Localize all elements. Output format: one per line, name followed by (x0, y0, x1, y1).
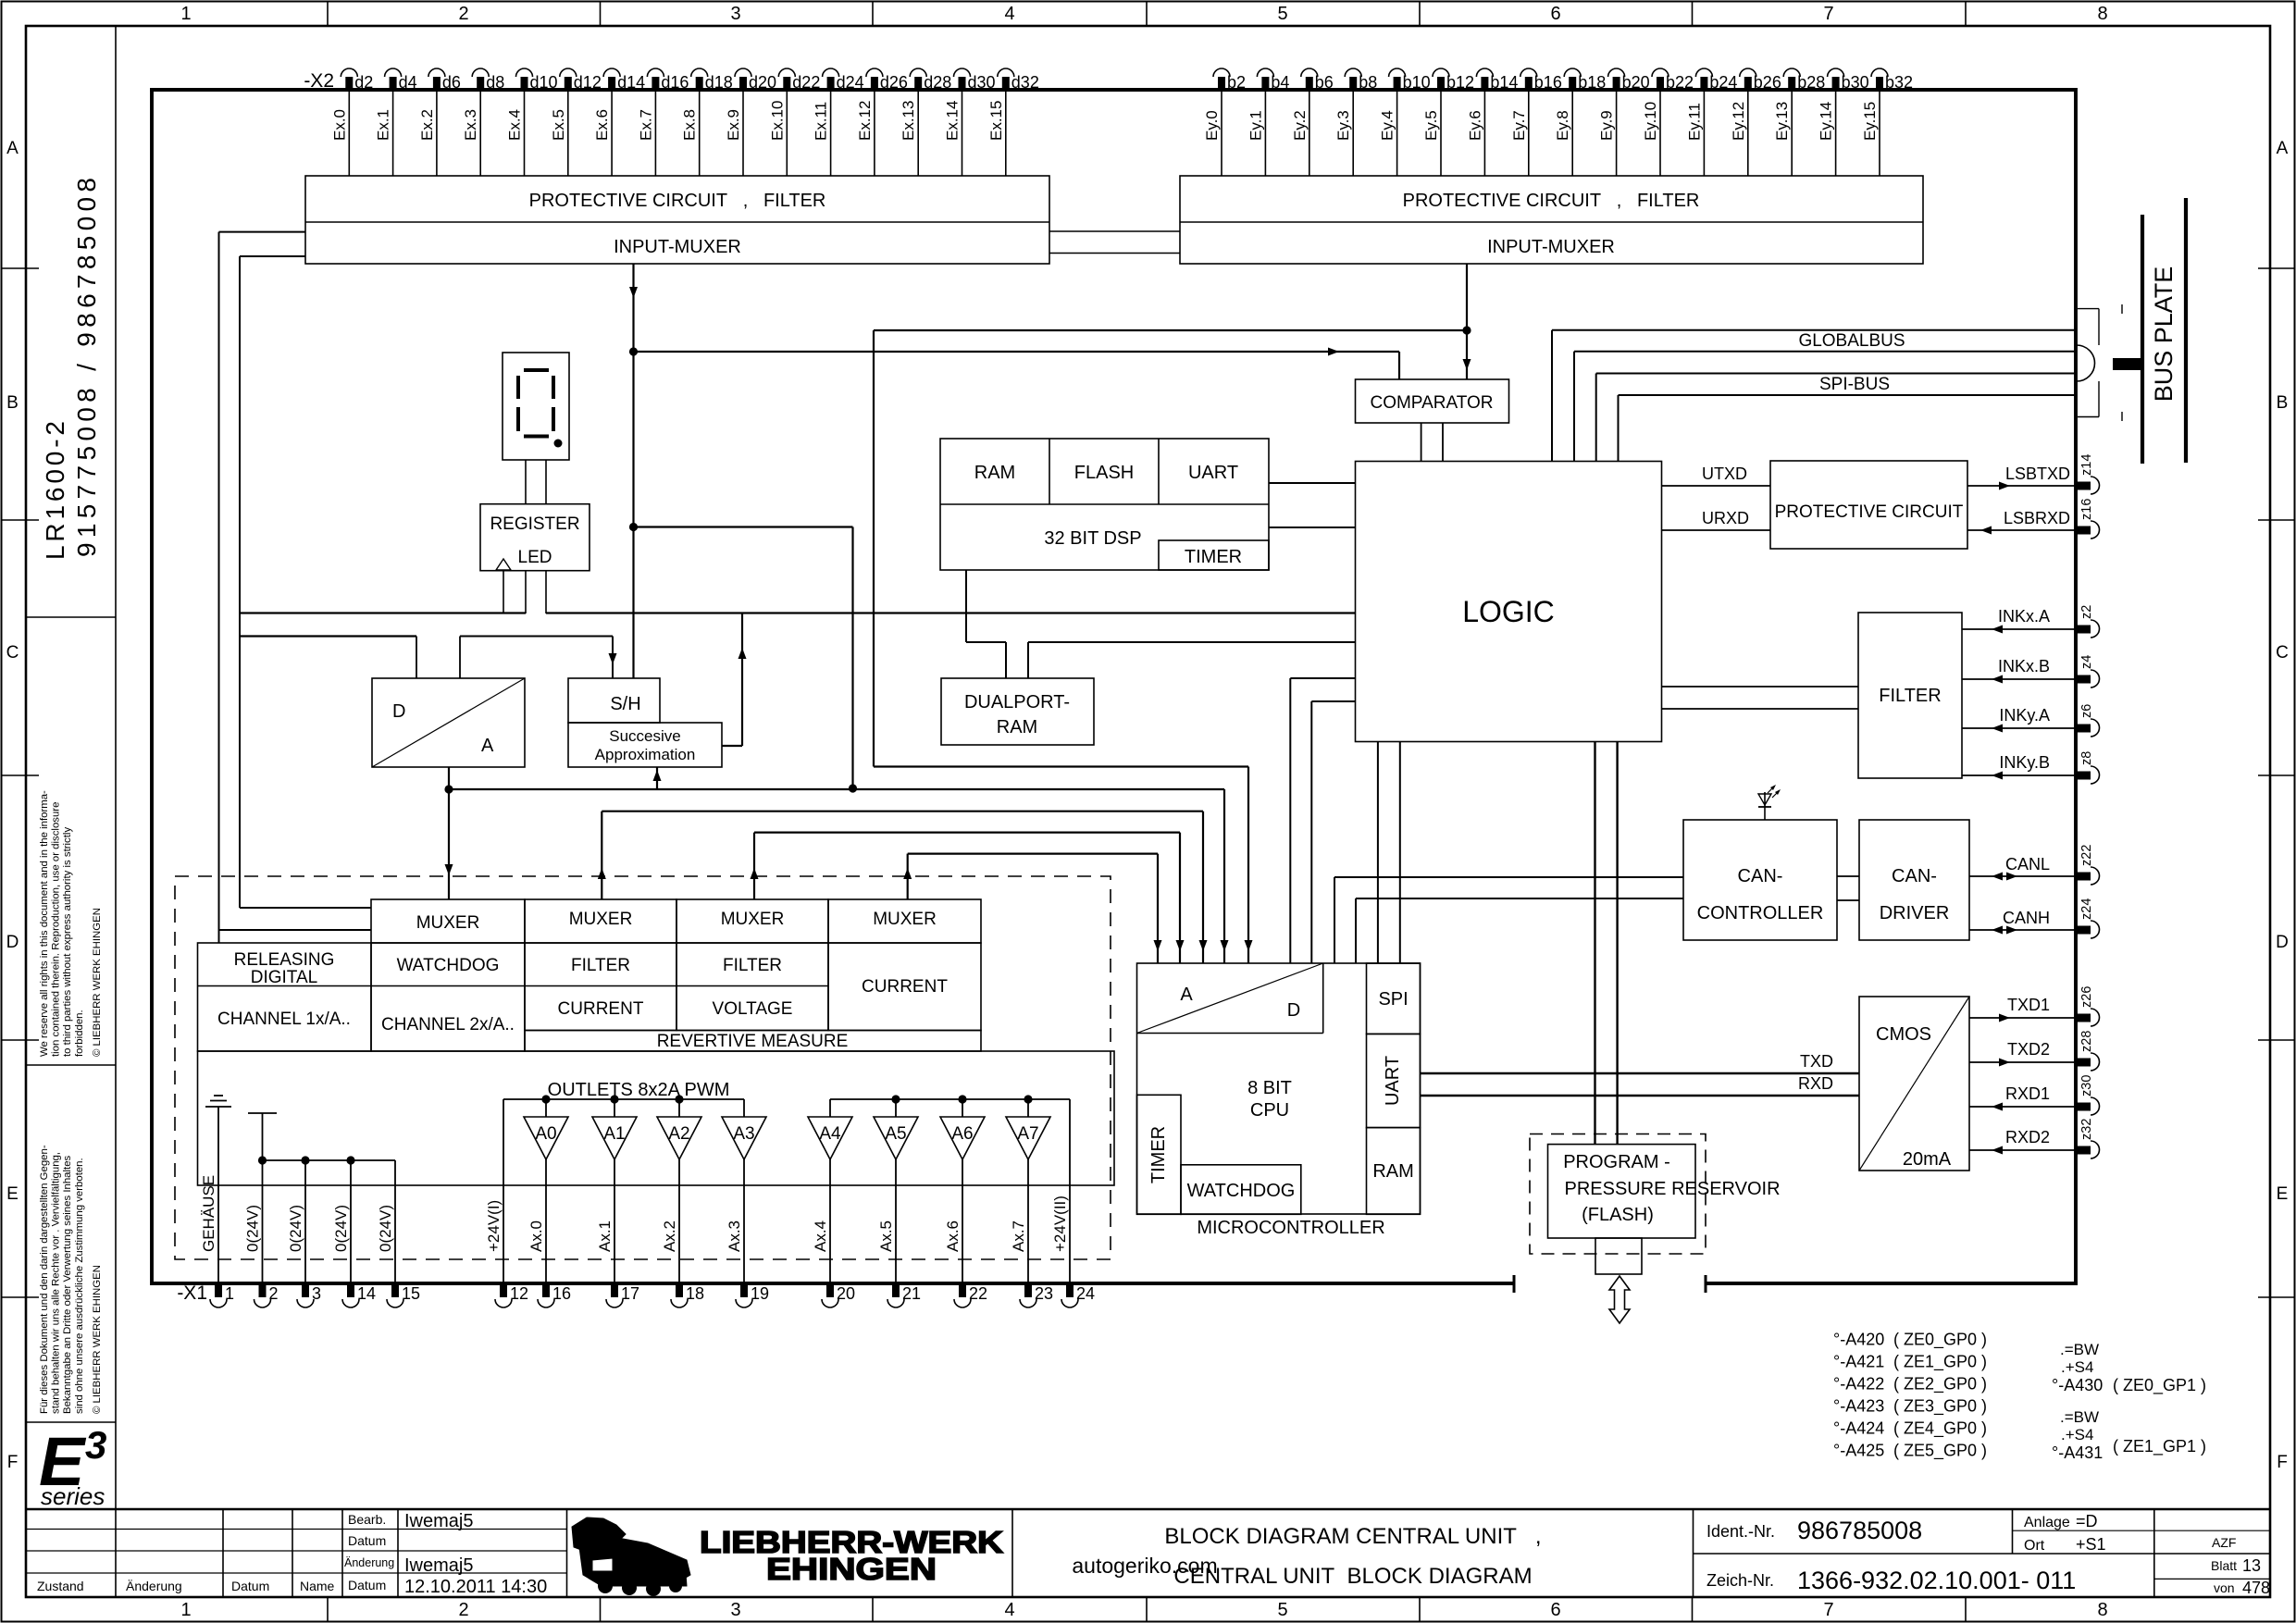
svg-text:( ZE0_GP1 ): ( ZE0_GP1 ) (2113, 1376, 2206, 1395)
central unit outline right rail (2074, 88, 2078, 1285)
wire Ey.11 from pin b24 to protective circuit (1685, 90, 1704, 176)
svg-text:LOGIC: LOGIC (1462, 595, 1555, 628)
svg-text:A1: A1 (603, 1124, 625, 1144)
wires logic to filter (1662, 687, 1859, 709)
svg-text:CANL: CANL (2005, 855, 2050, 873)
wire INKy.A with pin z6 (1962, 704, 2100, 737)
svg-text:RXD2: RXD2 (2005, 1128, 2050, 1146)
svg-text:°-A421: °-A421 (1833, 1353, 1884, 1371)
dashed box program reservoir (1530, 1134, 1706, 1255)
svg-text:series: series (41, 1482, 105, 1510)
svg-text:Änderung: Änderung (344, 1556, 394, 1569)
svg-text:d8: d8 (486, 73, 504, 92)
svg-text:TXD1: TXD1 (2007, 996, 2050, 1014)
svg-text:D: D (6, 933, 19, 952)
connector -X1 bus left segment (152, 1275, 1514, 1293)
title block grid (26, 1509, 2270, 1597)
wire dsp uart to logic (1269, 482, 1356, 484)
svg-text:OUTLETS 8x2A PWM: OUTLETS 8x2A PWM (548, 1080, 730, 1100)
svg-text:-X2: -X2 (304, 70, 334, 92)
svg-text:b2: b2 (1227, 73, 1246, 92)
pin 16 of -X1 (538, 1283, 571, 1307)
pin b28 of -X2 (1783, 68, 1825, 92)
wire lsbtxd with pin z14 (1967, 454, 2100, 494)
svg-text:+24V(I): +24V(I) (485, 1200, 503, 1252)
svg-text:Ey.6: Ey.6 (1466, 110, 1483, 141)
ident number (1706, 1517, 1922, 1544)
svg-text:Iwemaj5: Iwemaj5 (404, 1511, 473, 1531)
svg-text:RELEASING: RELEASING (234, 950, 335, 970)
svg-text:TXD: TXD (1800, 1052, 1833, 1071)
svg-text:A: A (2277, 139, 2289, 158)
svg-text:19: 19 (751, 1284, 769, 1303)
svg-text:20mA: 20mA (1903, 1149, 1952, 1170)
svg-text:PROTECTIVE CIRCUIT: PROTECTIVE CIRCUIT (1775, 502, 1964, 522)
svg-text:A7: A7 (1017, 1124, 1038, 1144)
pin d28 of -X2 (910, 68, 951, 92)
svg-text:3: 3 (85, 1423, 106, 1467)
svg-text:z32: z32 (2079, 1119, 2094, 1140)
wire Ey.5 from pin b12 to protective circuit (1422, 90, 1441, 176)
bus plate connector symbol (2077, 304, 2142, 421)
svg-text:( ZE5_GP0 ): ( ZE5_GP0 ) (1893, 1442, 1987, 1461)
svg-text:Ex.5: Ex.5 (550, 109, 567, 141)
svg-text:b24: b24 (1709, 73, 1737, 92)
svg-text:b22: b22 (1666, 73, 1694, 92)
svg-text:Ex.8: Ex.8 (681, 109, 699, 141)
svg-text:z26: z26 (2079, 986, 2094, 1008)
svg-text:(FLASH): (FLASH) (1582, 1205, 1654, 1225)
svg-text:°-A420: °-A420 (1833, 1331, 1884, 1349)
sidebar legal text german (39, 1145, 103, 1414)
svg-text:2: 2 (269, 1284, 279, 1303)
svg-text:von: von (2214, 1580, 2235, 1595)
svg-text:forbidden.: forbidden. (74, 1010, 85, 1057)
pin b12 of -X2 (1433, 68, 1474, 92)
wire Ey.15 from pin b32 to protective circuit (1861, 90, 1880, 176)
block filter (1858, 613, 1962, 778)
wire register output to logic (546, 612, 1356, 613)
svg-text:Anlage: Anlage (2024, 1515, 2070, 1530)
svg-text:VOLTAGE: VOLTAGE (713, 999, 793, 1019)
svg-text:Ex.0: Ex.0 (330, 109, 348, 141)
wire Ex.4 from pin d10 to protective circuit (506, 90, 525, 176)
svg-text:E: E (6, 1184, 19, 1204)
wire right input-muxer to comparator (1463, 264, 1471, 379)
svg-text:Ident.-Nr.: Ident.-Nr. (1706, 1522, 1775, 1541)
wire Ey.13 from pin b28 to protective circuit (1773, 90, 1792, 176)
svg-text:Ex.12: Ex.12 (856, 101, 874, 141)
svg-text:°-A422: °-A422 (1833, 1375, 1884, 1394)
svg-text:Ax.4: Ax.4 (812, 1220, 829, 1252)
double arrow symbol (1609, 1276, 1630, 1323)
wire dsp to dualport ram (966, 570, 1006, 678)
wires to d/a converter top (416, 637, 460, 679)
wire INKy.B with pin z8 (1962, 751, 2100, 784)
column ruler ticks top (328, 2, 1966, 26)
svg-text:Ex.3: Ex.3 (462, 109, 479, 141)
block comparator (1356, 379, 1509, 423)
svg-text:3: 3 (312, 1284, 321, 1303)
svg-text:b32: b32 (1885, 73, 1913, 92)
wire Ex.9 from pin d20 to protective circuit (725, 90, 743, 176)
pin d30 of -X2 (954, 68, 996, 92)
pin 15 of -X1 (387, 1283, 420, 1307)
svg-text:Ey.12: Ey.12 (1730, 102, 1747, 141)
svg-text:°-A425: °-A425 (1833, 1442, 1884, 1460)
svg-text:COMPARATOR: COMPARATOR (1370, 393, 1493, 413)
wire d/a line to sample hold (460, 637, 617, 679)
svg-text:S/H: S/H (610, 694, 640, 714)
svg-text:INKx.B: INKx.B (1998, 657, 2050, 675)
wire +24v(II) rail (830, 1099, 1070, 1283)
pin 24 of -X1 (1061, 1283, 1095, 1307)
block d/a converter (372, 678, 525, 767)
wire Ex.11 from pin d24 to protective circuit (813, 90, 831, 176)
svg-text:INPUT-MUXER: INPUT-MUXER (614, 237, 741, 257)
amplifier A0 (524, 1099, 568, 1283)
pin b4 of -X2 (1257, 68, 1289, 92)
svg-text:z24: z24 (2079, 898, 2094, 920)
svg-text:AZF: AZF (2212, 1535, 2236, 1550)
svg-text:D: D (2276, 933, 2289, 952)
svg-text:TIMER: TIMER (1148, 1126, 1169, 1183)
svg-text:LR1600-2: LR1600-2 (41, 421, 69, 560)
wires register to bus (503, 571, 546, 613)
svg-text:8: 8 (2097, 4, 2107, 24)
svg-text:CANH: CANH (2003, 909, 2050, 927)
wire Ey.7 from pin b16 to protective circuit (1510, 90, 1529, 176)
svg-text:Approximation: Approximation (595, 746, 696, 763)
svg-text:We reserve all rights in this: We reserve all rights in this document a… (39, 790, 50, 1057)
anlage ort fields (2024, 1512, 2106, 1554)
wire urxd logic to protective circuit (1662, 509, 1771, 530)
device reference A431 (2052, 1408, 2206, 1462)
block watchdog channel 2x (371, 943, 525, 1051)
svg-text:MUXER: MUXER (569, 910, 633, 929)
block filter current column (525, 943, 676, 1031)
pin d12 of -X2 (560, 68, 602, 92)
block current column4 (828, 943, 981, 1031)
svg-text:Bearb.: Bearb. (348, 1512, 386, 1527)
svg-text:© LIEBHERR WERK EHINGEN: © LIEBHERR WERK EHINGEN (92, 908, 103, 1057)
svg-text:D: D (1287, 1000, 1300, 1021)
svg-text:16: 16 (552, 1284, 571, 1303)
svg-text:b8: b8 (1359, 73, 1377, 92)
wire link between input-muxer blocks (1049, 231, 1180, 254)
pin b32 of -X2 (1871, 68, 1913, 92)
wire Ex.3 from pin d8 to protective circuit (462, 90, 480, 176)
block can-driver (1859, 820, 1969, 940)
block protective circuit / input-muxer right (1180, 176, 1923, 264)
wire Ey.14 from pin b30 to protective circuit (1818, 90, 1836, 176)
pin b22 of -X2 (1652, 68, 1694, 92)
svg-text:b10: b10 (1403, 73, 1431, 92)
bus globalbus (1552, 330, 2076, 462)
svg-text:z2: z2 (2079, 605, 2094, 619)
svg-text:Ex.6: Ex.6 (593, 109, 611, 141)
svg-text:0(24V): 0(24V) (244, 1205, 262, 1252)
wires seven segment to register (526, 460, 546, 504)
pin b18 of -X2 (1564, 68, 1606, 92)
svg-text:MICROCONTROLLER: MICROCONTROLLER (1197, 1218, 1384, 1238)
svg-text:CAN-: CAN- (1738, 866, 1783, 886)
column numbers bottom (180, 1600, 2107, 1620)
svg-text:A4: A4 (819, 1124, 841, 1144)
wire RXD2 with pin z32 (1969, 1119, 2100, 1158)
svg-text:Zeich-Nr.: Zeich-Nr. (1706, 1571, 1774, 1590)
wire input-muxer feedback to register input (240, 612, 526, 613)
node junction register branch on adc line (849, 784, 857, 792)
block muxer2 (525, 899, 676, 943)
pin d22 of -X2 (778, 68, 820, 92)
block muxer3 (676, 899, 828, 943)
svg-text:Änderung: Änderung (126, 1579, 182, 1593)
svg-text:Ey.11: Ey.11 (1685, 103, 1703, 141)
svg-text:Ey.15: Ey.15 (1861, 102, 1879, 141)
central unit outline left edge (150, 88, 154, 1285)
liebherr-werk ehingen wordmark (700, 1525, 1003, 1586)
svg-text:17: 17 (621, 1284, 639, 1303)
pin b30 of -X2 (1828, 68, 1869, 92)
svg-text:Ey.9: Ey.9 (1598, 110, 1616, 141)
block filter voltage column (676, 943, 828, 1031)
svg-text:4: 4 (1004, 4, 1014, 24)
svg-text:Succesive: Succesive (609, 727, 680, 745)
wire comparator feed to muxer adc channel (874, 330, 1467, 963)
wire TXD1 with pin z26 (1969, 986, 2100, 1026)
svg-text:Ex.14: Ex.14 (944, 101, 962, 141)
svg-text:z30: z30 (2079, 1075, 2094, 1096)
svg-text:PRESSURE RESERVOIR: PRESSURE RESERVOIR (1564, 1179, 1780, 1199)
svg-text:Ax.0: Ax.0 (527, 1220, 545, 1252)
svg-text:Ex.4: Ex.4 (506, 109, 524, 141)
wire Ex.14 from pin d30 to protective circuit (944, 90, 962, 176)
pin d10 of -X2 (516, 68, 558, 92)
pin d4 of -X2 (385, 68, 417, 92)
block protective circuit / input-muxer left (305, 176, 1049, 264)
svg-text:DRIVER: DRIVER (1880, 903, 1950, 923)
pin d14 of -X2 (603, 68, 645, 92)
wire canh with pin z24 (1969, 898, 2100, 938)
svg-text:6: 6 (1550, 4, 1560, 24)
svg-text:( ZE1_GP1 ): ( ZE1_GP1 ) (2113, 1437, 2206, 1456)
svg-text:b18: b18 (1578, 73, 1606, 92)
svg-text:Ort: Ort (2024, 1538, 2045, 1554)
pin d26 of -X2 (866, 68, 908, 92)
svg-text:z4: z4 (2079, 655, 2094, 669)
svg-text:Ey.7: Ey.7 (1510, 110, 1528, 141)
bus plate bars (2142, 198, 2186, 464)
wire logic to microcontroller d1 (1290, 678, 1355, 963)
wire Ex.8 from pin d18 to protective circuit (681, 90, 700, 176)
block revertive measure (525, 1031, 981, 1052)
wire Ey.2 from pin b6 to protective circuit (1291, 90, 1309, 176)
svg-text:d12: d12 (574, 73, 602, 92)
svg-text:0(24V): 0(24V) (287, 1205, 304, 1252)
pin 19 of -X1 (736, 1283, 769, 1307)
block can-controller (1683, 820, 1837, 940)
wires can-controller to can-driver (1837, 876, 1859, 900)
svg-text:+24V(II): +24V(II) (1051, 1196, 1069, 1252)
svg-text:2: 2 (458, 1600, 468, 1620)
svg-text:A3: A3 (733, 1124, 754, 1144)
wire Ex.15 from pin d32 to protective circuit (987, 90, 1006, 176)
wire Ex.2 from pin d6 to protective circuit (418, 90, 437, 176)
E3 series logo (39, 1423, 106, 1510)
svg-text:A0: A0 (535, 1124, 556, 1144)
svg-text:°-A423: °-A423 (1833, 1397, 1884, 1416)
pin d2 of -X2 (341, 68, 373, 92)
svg-text:DUALPORT-: DUALPORT- (964, 692, 1070, 712)
svg-text:CHANNEL 2x/A..: CHANNEL 2x/A.. (381, 1015, 515, 1035)
pin 20 of -X1 (822, 1283, 855, 1307)
svg-text:d16: d16 (661, 73, 689, 92)
svg-text:2: 2 (458, 4, 468, 24)
title block field labels (37, 1512, 394, 1593)
row letters right (2276, 139, 2289, 1472)
wire gehaeuse to pin 1 (217, 1107, 219, 1283)
svg-text:WATCHDOG: WATCHDOG (397, 956, 500, 975)
title block values (404, 1511, 547, 1597)
block sample hold s/h (568, 678, 660, 723)
svg-text:1366-932.02.10.001- 011: 1366-932.02.10.001- 011 (1797, 1567, 2076, 1594)
block succesive approximation (568, 723, 722, 767)
svg-text:( ZE1_GP0 ): ( ZE1_GP0 ) (1893, 1353, 1987, 1372)
block program pressure reservoir flash (1548, 1145, 1781, 1238)
svg-text:Ey.0: Ey.0 (1203, 110, 1221, 141)
svg-text:Datum: Datum (231, 1579, 269, 1593)
svg-text:© LIEBHERR WERK EHINGEN: © LIEBHERR WERK EHINGEN (92, 1265, 103, 1414)
wire spi to can-controller upper (1334, 877, 1683, 963)
pin b24 of -X2 (1695, 68, 1737, 92)
svg-text:PROTECTIVE CIRCUIT , FILTE: PROTECTIVE CIRCUIT , FILTER (529, 191, 826, 211)
svg-text:MUXER: MUXER (873, 910, 937, 929)
node junctions +24v(I) rail (541, 1095, 683, 1103)
wire to comparator left input (634, 348, 1400, 380)
device reference list A420-A425 (1833, 1331, 1987, 1461)
svg-text:C: C (2276, 643, 2289, 663)
svg-text:d32: d32 (1011, 73, 1039, 92)
led diode on can-controller (1758, 785, 1781, 820)
svg-text:A: A (1180, 985, 1193, 1005)
svg-text:Ex.1: Ex.1 (375, 109, 392, 141)
svg-text:d26: d26 (880, 73, 908, 92)
svg-text:Ax.1: Ax.1 (596, 1220, 614, 1252)
amplifier A5 (874, 1099, 918, 1283)
svg-text:to third parties without expre: to third parties without express authori… (62, 827, 73, 1057)
pin 1 of -X1 (210, 1283, 234, 1307)
svg-text:°-A430: °-A430 (2052, 1376, 2103, 1394)
pin b14 of -X2 (1476, 68, 1518, 92)
svg-text:1: 1 (180, 4, 191, 24)
node junctions 0(24v) rail (258, 1156, 355, 1164)
svg-text:d22: d22 (792, 73, 820, 92)
svg-text:BLOCK DIAGRAM CENTRAL UNIT: BLOCK DIAGRAM CENTRAL UNIT , (1164, 1524, 1541, 1549)
svg-text:d24: d24 (837, 73, 864, 92)
svg-text:PROGRAM -: PROGRAM - (1563, 1152, 1670, 1172)
svg-text:986785008: 986785008 (1797, 1517, 1922, 1544)
amplifier A2 (657, 1099, 701, 1283)
wires logic to program reservoir (1595, 742, 1618, 1145)
wire dsp to logic (1269, 527, 1356, 528)
svg-text:GEHÄUSE: GEHÄUSE (200, 1175, 217, 1252)
wire canl with pin z22 (1969, 845, 2100, 885)
svg-text:CHANNEL 1x/A..: CHANNEL 1x/A.. (217, 1010, 351, 1029)
svg-text:1: 1 (225, 1284, 234, 1303)
svg-text:Ex.11: Ex.11 (813, 102, 830, 141)
svg-text:Ax.7: Ax.7 (1010, 1220, 1027, 1252)
svg-text:22: 22 (969, 1284, 987, 1303)
pin 23 of -X1 (1020, 1283, 1053, 1307)
svg-text:d6: d6 (442, 73, 461, 92)
svg-text:CONTROLLER: CONTROLLER (1697, 903, 1824, 923)
seven segment display (503, 353, 569, 460)
pin b26 of -X2 (1740, 68, 1781, 92)
wire Ey.9 from pin b20 to protective circuit (1598, 90, 1617, 176)
pin d18 of -X2 (691, 68, 733, 92)
pin b20 of -X2 (1608, 68, 1650, 92)
block logic (1356, 462, 1662, 742)
svg-text:8 BIT: 8 BIT (1247, 1078, 1292, 1098)
svg-text:0(24V): 0(24V) (332, 1205, 350, 1252)
svg-text:DIGITAL: DIGITAL (251, 968, 318, 987)
central unit outline top bus (150, 88, 2076, 92)
svg-text:Ey.8: Ey.8 (1554, 110, 1571, 141)
svg-text:15: 15 (402, 1284, 420, 1303)
svg-text:FILTER: FILTER (571, 956, 630, 975)
pin d20 of -X2 (735, 68, 776, 92)
svg-text:SPI-BUS: SPI-BUS (1819, 375, 1890, 394)
svg-text:14: 14 (357, 1284, 376, 1303)
svg-text:b4: b4 (1271, 73, 1289, 92)
svg-text:Ax.6: Ax.6 (944, 1220, 962, 1252)
svg-text:b20: b20 (1622, 73, 1650, 92)
wire Ex.5 from pin d12 to protective circuit (550, 90, 568, 176)
svg-text:LED: LED (518, 548, 552, 567)
svg-text:WATCHDOG: WATCHDOG (1187, 1181, 1296, 1201)
svg-text:A6: A6 (951, 1124, 973, 1144)
ground symbol gehaeuse (205, 1096, 231, 1107)
svg-text:Datum: Datum (348, 1533, 386, 1548)
title text (1164, 1524, 1541, 1589)
pin b16 of -X2 (1520, 68, 1562, 92)
block dualport-ram (941, 678, 1094, 745)
block 32 bit dsp with ram flash uart timer (940, 439, 1269, 570)
svg-text:b6: b6 (1315, 73, 1334, 92)
pin 2 of -X1 (254, 1283, 279, 1307)
wire Ex.10 from pin d22 to protective circuit (768, 90, 787, 176)
device reference A430 (2052, 1341, 2206, 1395)
svg-text:FLASH: FLASH (1074, 463, 1134, 483)
svg-text:z16: z16 (2079, 499, 2094, 520)
pin 17 of -X1 (606, 1283, 639, 1307)
pin b8 of -X2 (1345, 68, 1377, 92)
amplifier A4 (808, 1099, 852, 1283)
pin 22 of -X1 (954, 1283, 987, 1307)
svg-text:INKy.A: INKy.A (1999, 706, 2050, 725)
svg-text:3: 3 (730, 4, 740, 24)
wire muxer3 output to adc (751, 833, 1185, 963)
svg-text:EHINGEN: EHINGEN (766, 1552, 937, 1586)
wire Ey.3 from pin b8 to protective circuit (1334, 90, 1353, 176)
svg-text:sind ohne unsere ausdrückliche: sind ohne unsere ausdrückliche Zustimmun… (74, 1158, 85, 1414)
svg-text:C: C (6, 643, 19, 663)
svg-text:UTXD: UTXD (1702, 465, 1747, 483)
svg-text:INKy.B: INKy.B (1999, 753, 2050, 772)
svg-text:RXD1: RXD1 (2005, 1084, 2050, 1103)
svg-text:12: 12 (510, 1284, 528, 1303)
